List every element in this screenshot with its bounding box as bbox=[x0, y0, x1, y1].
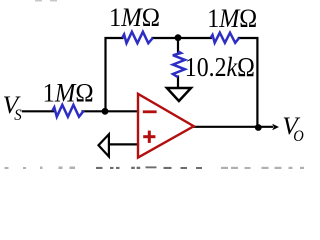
svg-text:1MΩ: 1MΩ bbox=[43, 77, 94, 107]
svg-text:1MΩ: 1MΩ bbox=[109, 2, 160, 32]
svg-text:10.2kΩ: 10.2kΩ bbox=[185, 52, 255, 82]
svg-text:O: O bbox=[293, 128, 304, 145]
svg-text:S: S bbox=[14, 107, 22, 124]
svg-text:1MΩ: 1MΩ bbox=[207, 3, 257, 33]
